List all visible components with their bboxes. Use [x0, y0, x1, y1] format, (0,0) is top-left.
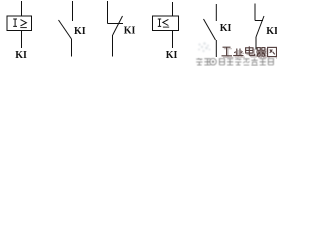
wire bottom lead contact 2: [112, 35, 114, 57]
wire top lead coil 2: [172, 2, 174, 16]
svg-text:KI: KI: [74, 26, 86, 37]
wire top lead contact 2: [107, 1, 109, 24]
contact KI (NO contact 1): [59, 1, 73, 57]
svg-text:KI: KI: [266, 26, 277, 37]
svg-text:KI: KI: [124, 26, 136, 37]
char 电: [246, 48, 253, 53]
fixed bar contact 2: [108, 23, 124, 25]
relay coil KI (overcurrent I>): [7, 1, 32, 48]
greater-than stroke: [21, 20, 27, 26]
blade contact 3: [204, 19, 216, 40]
svg-text:KI: KI: [166, 50, 178, 61]
wire top lead contact 3: [215, 4, 217, 21]
value label I>: [13, 19, 17, 26]
blade contact 4: [256, 16, 264, 37]
blade contact 1: [59, 20, 72, 39]
wire bottom lead contact 1: [71, 39, 73, 57]
less-than stroke: [163, 19, 169, 25]
watermark logo text 工业电器网 (shadow copy): [223, 48, 278, 58]
coil box 2: [153, 16, 179, 31]
char 工: [222, 47, 233, 56]
svg-text:KI: KI: [15, 50, 27, 61]
relay coil KI (undercurrent I<): [153, 2, 179, 48]
underline of >: [20, 27, 27, 29]
char 网: [268, 47, 277, 56]
watermark logo text 工业电器网 (main): [222, 46, 277, 56]
wire top lead contact 4: [254, 4, 256, 21]
char 器: [257, 48, 260, 51]
contact KI (NC contact 2): [255, 4, 264, 50]
wire bottom lead contact 4: [255, 37, 257, 50]
wire bottom lead contact 3: [215, 40, 217, 57]
fixed bar contact 4: [255, 20, 263, 22]
wire bottom lead coil 1: [21, 31, 23, 49]
wire top lead coil 1: [21, 1, 23, 16]
watermark logo: faint round icon: [198, 42, 210, 52]
coil box 1: [7, 16, 32, 31]
wire top lead contact 1: [72, 1, 74, 21]
underline of <: [163, 26, 169, 28]
svg-text:KI: KI: [220, 23, 232, 34]
contact KI (NC contact 1): [108, 1, 124, 57]
char 业: [233, 49, 243, 56]
value label I<: [158, 19, 161, 26]
watermark small gray text row: [196, 58, 274, 65]
blade contact 2: [113, 16, 123, 35]
wire bottom lead coil 2: [172, 31, 174, 49]
contact KI (NO contact 2): [204, 4, 217, 57]
